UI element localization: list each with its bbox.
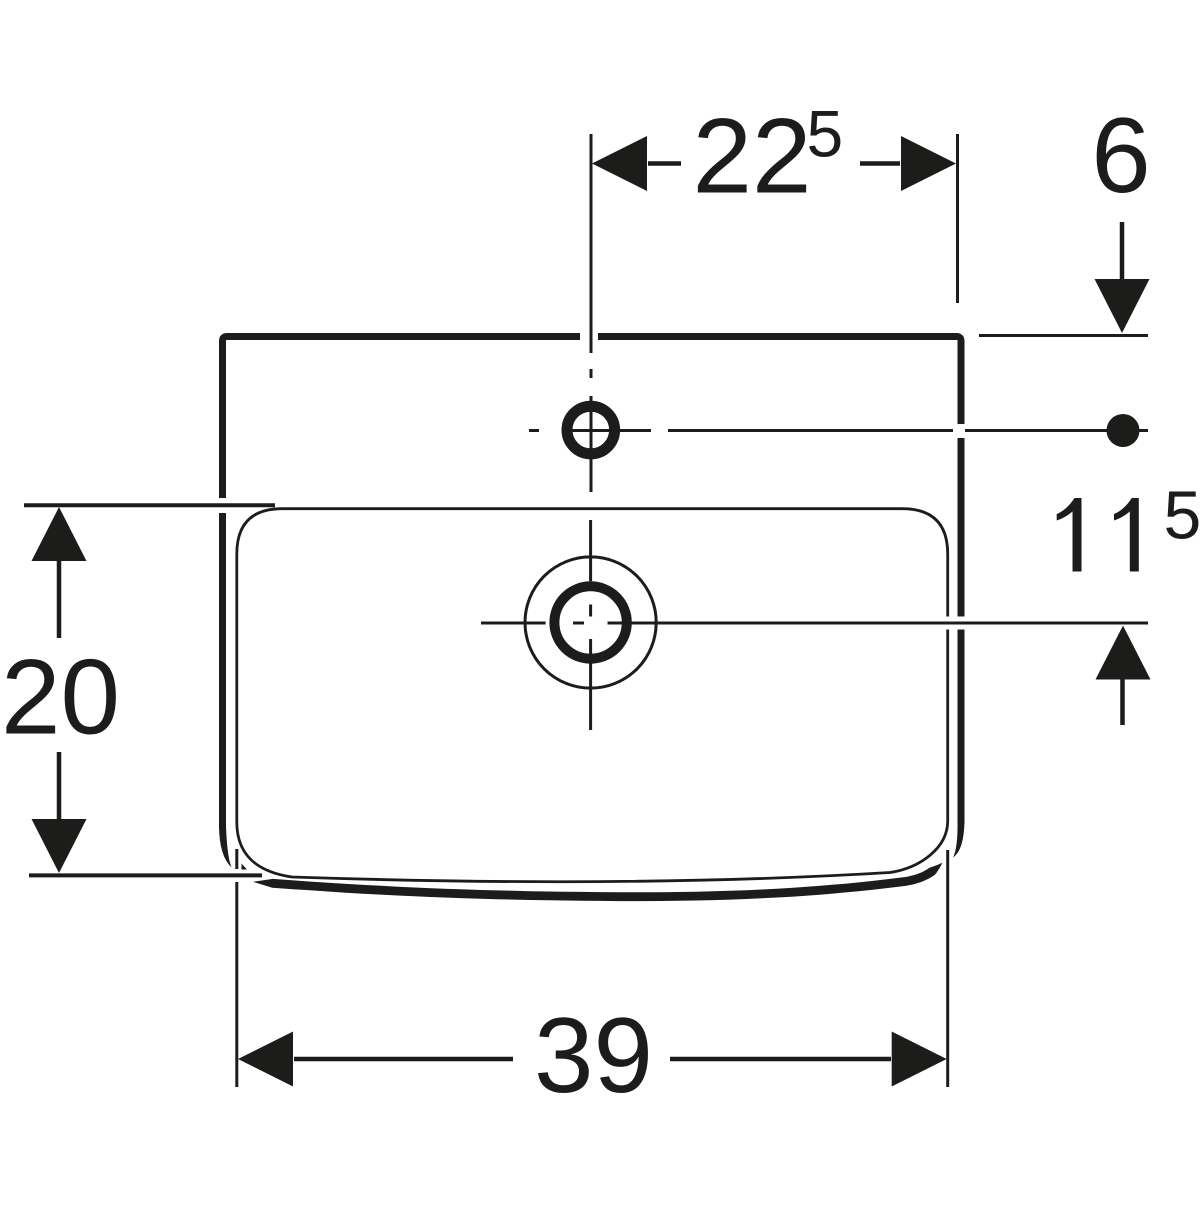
svg-text:39: 39 [534, 995, 653, 1115]
svg-text:6: 6 [1091, 95, 1151, 215]
svg-text:5: 5 [1164, 478, 1200, 554]
svg-text:5: 5 [807, 96, 844, 170]
svg-text:20: 20 [1, 637, 120, 757]
svg-text:22: 22 [693, 96, 812, 216]
